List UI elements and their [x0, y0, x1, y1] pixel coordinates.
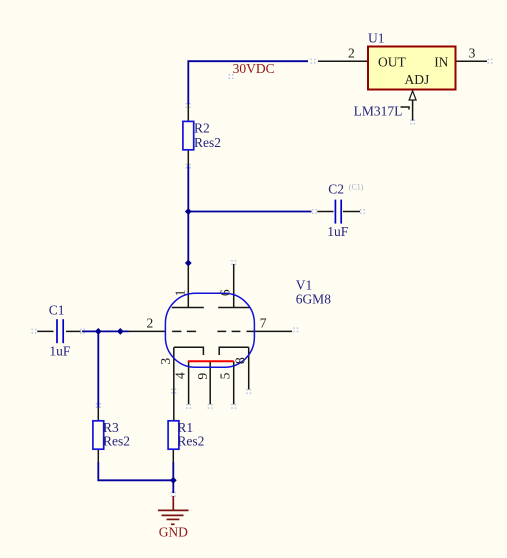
svg-text:V1: V1 [296, 277, 313, 292]
svg-text:1: 1 [172, 290, 187, 297]
svg-text:IN: IN [434, 54, 448, 69]
svg-text:1uF: 1uF [49, 343, 71, 358]
svg-text:OUT: OUT [378, 54, 406, 69]
svg-text:4: 4 [173, 372, 188, 379]
svg-text:5: 5 [218, 372, 233, 379]
svg-text:U1: U1 [368, 30, 385, 45]
svg-text:GND: GND [159, 524, 188, 539]
svg-text:C2: C2 [328, 181, 344, 196]
svg-text:Res2: Res2 [103, 433, 130, 448]
svg-text:9: 9 [195, 373, 210, 380]
svg-text:1uF: 1uF [327, 224, 349, 239]
svg-text:2: 2 [348, 46, 355, 61]
svg-text:R2: R2 [194, 120, 210, 135]
svg-text:3: 3 [158, 358, 173, 365]
svg-text:C1: C1 [49, 302, 65, 317]
svg-text:3: 3 [469, 46, 476, 61]
svg-text:(C1): (C1) [349, 182, 364, 191]
svg-text:Res2: Res2 [177, 433, 204, 448]
svg-text:7: 7 [260, 316, 267, 331]
svg-text:8: 8 [232, 357, 247, 364]
svg-text:ADJ: ADJ [405, 72, 430, 87]
svg-text:LM317L: LM317L [354, 103, 403, 118]
svg-text:6: 6 [217, 289, 232, 296]
svg-text:2: 2 [147, 315, 154, 330]
svg-text:6GM8: 6GM8 [296, 292, 332, 307]
svg-text:Res2: Res2 [194, 135, 221, 150]
svg-text:30VDC: 30VDC [233, 61, 275, 76]
